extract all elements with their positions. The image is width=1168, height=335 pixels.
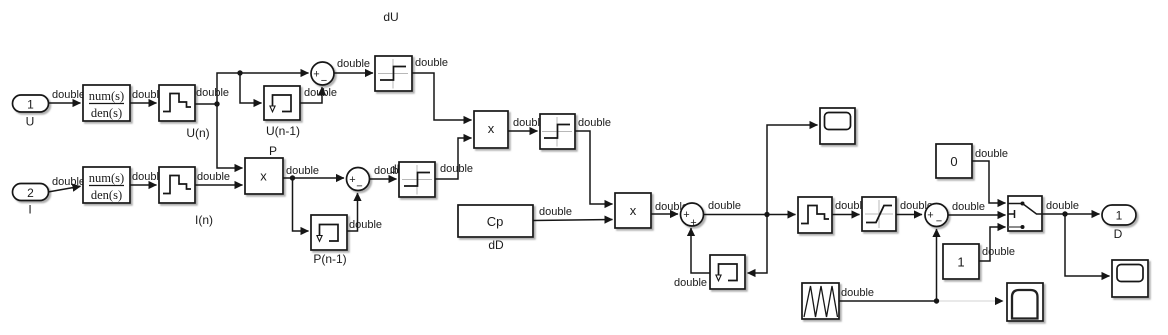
svg-text:P: P <box>269 144 277 158</box>
svg-text:double: double <box>952 201 985 213</box>
svg-text:1: 1 <box>1116 209 1123 223</box>
repeating sequence (triangle carrier) <box>802 283 839 319</box>
svg-text:1: 1 <box>957 255 964 270</box>
constant 1 <box>943 244 979 279</box>
wire const0 to switch <box>972 161 1006 203</box>
svg-text:U: U <box>26 115 35 129</box>
inport 2 (I) <box>13 184 49 201</box>
wire Cp to product2 <box>533 220 613 221</box>
svg-text:I: I <box>28 203 31 217</box>
svg-text:Cp: Cp <box>487 214 504 229</box>
svg-text:double: double <box>1046 200 1079 212</box>
svg-text:2: 2 <box>27 186 34 200</box>
svg-text:double: double <box>337 58 370 70</box>
svg-text:0: 0 <box>950 154 957 169</box>
node at U(n) output <box>214 101 219 106</box>
wire branch down to product P <box>217 104 243 168</box>
wire up to scope1 <box>767 125 818 215</box>
wire TF1 to U(n) <box>130 102 157 104</box>
sum U1: dU = U(n)-U(n-1) <box>311 62 334 85</box>
wire sign dU to product1 <box>412 73 472 120</box>
wire down to scope2 <box>1065 214 1110 276</box>
wire switch to outport <box>1042 213 1100 215</box>
svg-text:double: double <box>52 89 85 101</box>
sum4 (compare with carrier) <box>925 204 948 227</box>
svg-text:num(s): num(s) <box>89 171 124 185</box>
svg-text:U(n): U(n) <box>186 126 209 140</box>
wire saturation to sum4 <box>896 214 922 216</box>
wire memory3 to sum3 bottom <box>691 228 710 273</box>
wire inport1 to TF1 <box>48 102 81 104</box>
svg-text:double: double <box>349 219 382 231</box>
scope2 <box>1112 260 1148 297</box>
node on top line <box>237 70 242 75</box>
svg-text:den(s): den(s) <box>91 188 122 202</box>
inport 1 (U) <box>13 95 49 112</box>
wire sum1 to sign dU <box>334 72 373 74</box>
wire const1 to switch <box>979 227 1006 261</box>
svg-text:−: − <box>321 75 327 87</box>
svg-text:+: + <box>349 174 355 186</box>
svg-text:double: double <box>415 57 448 69</box>
svg-text:double: double <box>708 200 741 212</box>
outport 1 (D) <box>1102 205 1136 225</box>
wire ZOH3 to saturation <box>832 214 860 216</box>
wire product2 to sum3 <box>651 213 678 215</box>
svg-text:−: − <box>356 181 362 193</box>
node at P output <box>290 175 295 180</box>
svg-text:dD: dD <box>488 238 504 252</box>
svg-text:num(s): num(s) <box>89 89 124 103</box>
transfer function I num(s)/den(s) <box>83 167 130 203</box>
svg-text:+: + <box>683 209 689 221</box>
svg-text:−: − <box>936 216 942 228</box>
memory3 (D feedback) <box>710 255 745 289</box>
wire U(n-1) to sum1 bottom <box>300 87 322 103</box>
svg-text:double: double <box>578 117 611 129</box>
svg-text:I(n): I(n) <box>195 213 213 227</box>
wire product1 to sign3 <box>508 130 538 132</box>
svg-text:x: x <box>488 121 495 136</box>
wire branch down to memory P(n-1) <box>293 178 309 231</box>
node on carrier wire <box>934 298 939 303</box>
svg-text:1: 1 <box>27 98 34 112</box>
svg-text:den(s): den(s) <box>91 106 122 120</box>
zero-order hold I(n) <box>159 167 195 203</box>
memory U(n-1) <box>264 86 300 120</box>
wire sign3 to product2 <box>575 131 613 204</box>
svg-text:x: x <box>630 203 637 218</box>
svg-text:double: double <box>975 148 1008 160</box>
wire U(n) out to sum1 (up branch) <box>195 73 309 104</box>
product1 sign(dU)*sign(dP) <box>474 111 508 148</box>
wire carrier to comparator block <box>839 300 937 302</box>
svg-text:double: double <box>52 176 85 188</box>
svg-text:double: double <box>539 206 572 218</box>
wire sign dP to product1 <box>435 138 472 179</box>
svg-text:U(n-1): U(n-1) <box>266 124 300 138</box>
wire TF2 to I(n) <box>130 184 157 186</box>
sign block 3 <box>540 114 575 149</box>
svg-text:+: + <box>690 217 696 229</box>
zero-order hold U(n) <box>159 85 195 121</box>
svg-text:+: + <box>927 210 933 222</box>
sum P: dP = P(n)-P(n-1) <box>347 168 370 191</box>
wire P(n-1) to sum2 bottom <box>347 193 358 231</box>
svg-text:double: double <box>674 277 707 289</box>
switch <box>1008 196 1042 231</box>
wire inport2 to TF2 <box>48 186 81 192</box>
constant 0 <box>936 144 972 178</box>
svg-text:x: x <box>260 169 267 184</box>
wire down to memory3 <box>748 215 768 274</box>
svg-text:+: + <box>313 69 319 81</box>
svg-text:double: double <box>440 163 473 175</box>
constant Cp <box>458 205 533 237</box>
svg-text:double: double <box>841 287 874 299</box>
svg-text:double: double <box>982 246 1015 258</box>
wire carrier up to sum4 bottom <box>936 229 938 301</box>
svg-text:P(n-1): P(n-1) <box>313 252 346 266</box>
sign block dP <box>399 162 435 197</box>
svg-text:double: double <box>286 165 319 177</box>
product2 dD step <box>615 193 651 228</box>
sum D accumulator <box>681 203 704 226</box>
zero-order hold 3 <box>798 197 832 233</box>
node after sum3 <box>764 212 769 217</box>
wire sum3 out to ZOH <box>704 214 796 216</box>
product P = U*I <box>245 158 283 194</box>
comparator display block <box>1007 283 1043 321</box>
wire sum2 to sign dP <box>370 178 397 180</box>
sign block dU <box>375 56 412 91</box>
svg-text:double: double <box>196 87 229 99</box>
saturation <box>862 197 896 231</box>
transfer function U num(s)/den(s) <box>83 85 130 121</box>
wire I(n) to product P <box>195 184 243 186</box>
svg-text:D: D <box>1114 227 1123 241</box>
memory P(n-1) <box>311 215 347 250</box>
node after switch <box>1062 211 1067 216</box>
svg-text:double: double <box>304 87 337 99</box>
wire sum4 to switch <box>948 214 1006 216</box>
scope1 <box>820 108 855 144</box>
wire P out to sum2 <box>283 177 344 179</box>
svg-text:double: double <box>197 171 230 183</box>
wire branch down to memory U(n-1) <box>240 73 262 103</box>
svg-text:dU: dU <box>383 10 398 24</box>
